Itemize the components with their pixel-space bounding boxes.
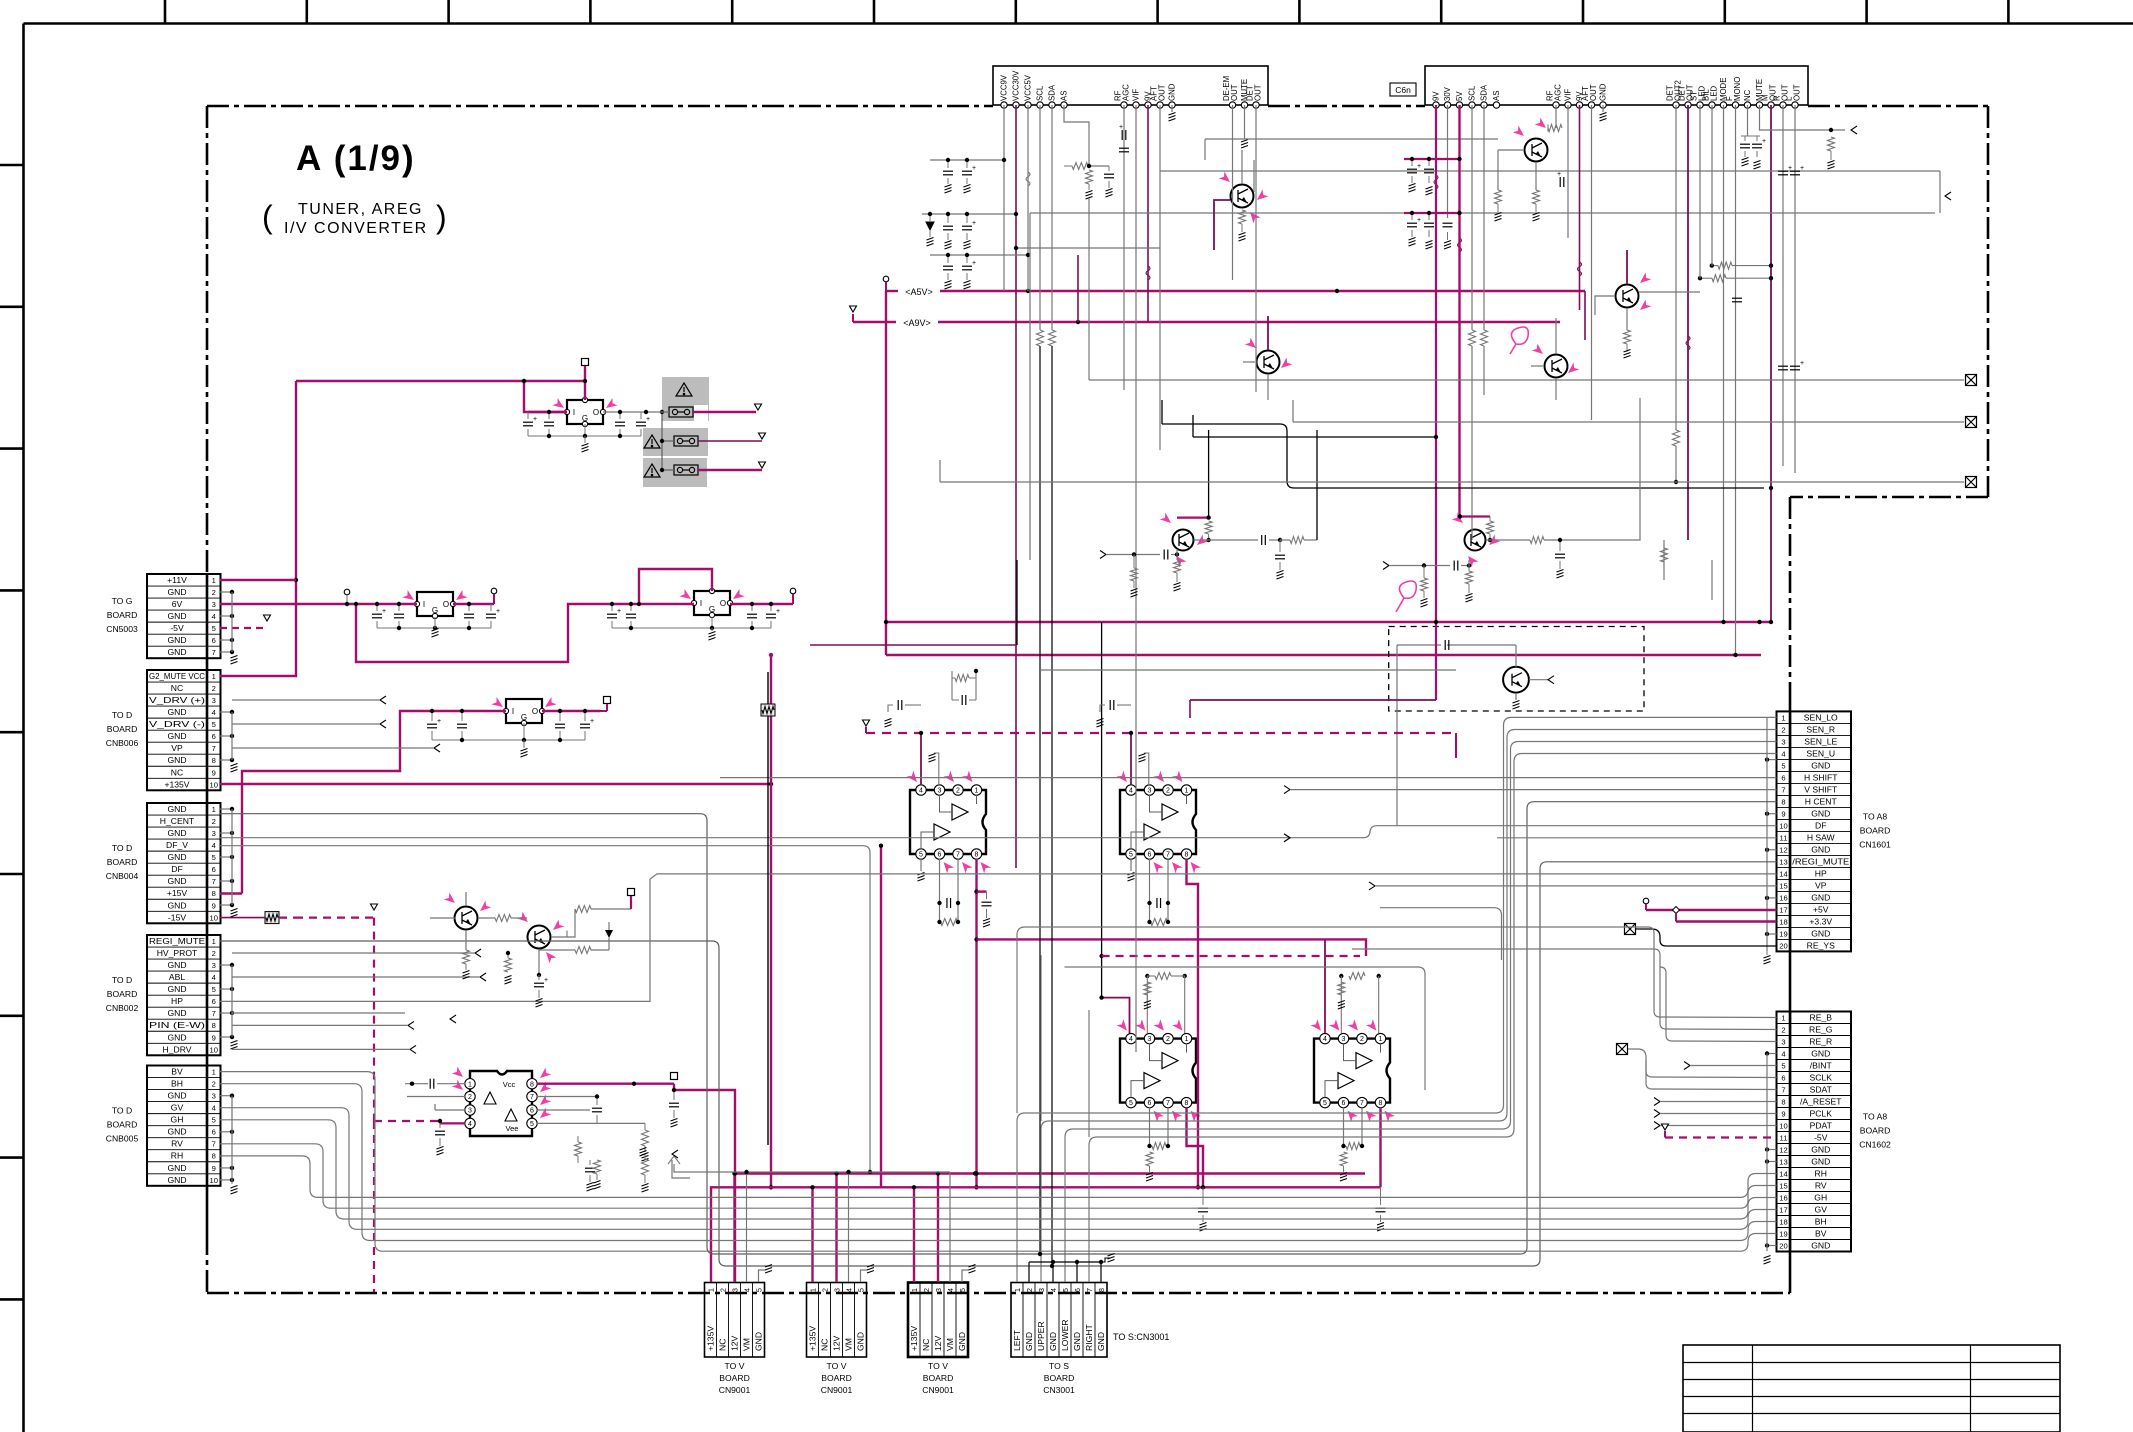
svg-text:BV: BV xyxy=(1815,1229,1827,1239)
svg-text:19: 19 xyxy=(1779,929,1787,938)
bottom conn CNS gnd bus xyxy=(1028,1262,1030,1282)
svg-text:H SHIFT: H SHIFT xyxy=(1804,772,1838,782)
svg-text:O: O xyxy=(593,408,599,417)
svg-text:1: 1 xyxy=(975,788,979,795)
svg-text:6: 6 xyxy=(1148,852,1152,859)
svg-text:VIF: VIF xyxy=(1564,89,1573,101)
DF_V wire xyxy=(220,846,870,1172)
svg-text:12V: 12V xyxy=(730,1335,740,1351)
svg-text:-5V: -5V xyxy=(1814,1133,1828,1143)
SCL/SDA join bottom rails xyxy=(1038,1252,1042,1256)
magenta +135V rail to CN9001 pin1 xyxy=(711,1187,1381,1282)
svg-text:3: 3 xyxy=(212,696,216,705)
svg-text:SDA: SDA xyxy=(1480,84,1489,101)
svg-text:GND: GND xyxy=(1024,1332,1034,1351)
svg-text:+: + xyxy=(544,977,548,984)
svg-text:AGC: AGC xyxy=(1554,84,1563,101)
svg-text:GND: GND xyxy=(1811,1157,1830,1167)
IC301 pin3 input xyxy=(435,1109,465,1111)
pin3 gnd stubs xyxy=(934,753,939,785)
svg-text:4: 4 xyxy=(212,973,216,982)
svg-text:LEFT: LEFT xyxy=(1012,1329,1022,1351)
svg-text:TO A8: TO A8 xyxy=(1863,1112,1887,1122)
wire jumper J1 out xyxy=(693,411,756,413)
svg-text:3: 3 xyxy=(730,1288,739,1292)
svg-text:6: 6 xyxy=(212,997,216,1006)
gnd hooks above CN9001 xyxy=(759,1270,766,1282)
svg-text:4: 4 xyxy=(919,788,923,795)
magenta rail y939 xyxy=(977,939,1367,956)
svg-text:CN1602: CN1602 xyxy=(1859,1140,1891,1150)
regulator IC003 (lower) xyxy=(506,699,542,723)
svg-text:GND: GND xyxy=(1811,844,1830,854)
svg-text:2: 2 xyxy=(212,588,216,597)
svg-text:GND: GND xyxy=(1811,808,1830,818)
svg-text:OUT: OUT xyxy=(1158,84,1167,101)
svg-text:2: 2 xyxy=(212,1080,216,1089)
svg-text:6V: 6V xyxy=(172,599,183,609)
svg-text:+: + xyxy=(1417,163,1421,170)
svg-text:O: O xyxy=(720,599,726,608)
magenta 9V net right xyxy=(1435,499,1437,501)
svg-text:+11V: +11V xyxy=(167,575,187,585)
svg-text:RH: RH xyxy=(171,1151,183,1161)
svg-text:REGI_MUTE: REGI_MUTE xyxy=(149,936,205,946)
svg-text:GND: GND xyxy=(167,984,186,994)
svg-text:17: 17 xyxy=(1779,905,1787,914)
svg-text:GND: GND xyxy=(167,587,186,597)
svg-text:BOARD: BOARD xyxy=(1860,825,1891,835)
svg-text:2: 2 xyxy=(718,1288,727,1292)
svg-text:5: 5 xyxy=(212,1116,216,1125)
svg-text:15: 15 xyxy=(1779,1182,1787,1191)
top mid transistor circuits xyxy=(1241,150,1243,184)
svg-text:VCC30V: VCC30V xyxy=(1012,70,1021,101)
svg-text:GND: GND xyxy=(754,1332,764,1351)
svg-text:MONO: MONO xyxy=(1733,77,1742,101)
svg-text:+: + xyxy=(1417,217,1421,224)
svg-text:14: 14 xyxy=(1779,869,1787,878)
svg-text:CN9001: CN9001 xyxy=(719,1385,751,1395)
svg-text:-15V: -15V xyxy=(168,912,186,922)
svg-text:RV: RV xyxy=(1815,1181,1827,1191)
op-amp U303 wires xyxy=(1101,622,1103,998)
svg-text:GH: GH xyxy=(1814,1193,1827,1203)
svg-text:SDA: SDA xyxy=(1048,84,1057,101)
svg-text:17: 17 xyxy=(1779,1206,1787,1215)
svg-text:+: + xyxy=(776,608,780,615)
svg-text:9: 9 xyxy=(1781,809,1785,818)
svg-text:/A_RESET: /A_RESET xyxy=(1800,1097,1842,1107)
svg-text:GND: GND xyxy=(167,611,186,621)
svg-text:HP: HP xyxy=(171,996,183,1006)
svg-text:AGC: AGC xyxy=(1122,84,1131,101)
svg-text:4: 4 xyxy=(212,612,216,621)
long magenta bus y622 xyxy=(886,621,1770,623)
svg-text:4: 4 xyxy=(742,1288,751,1292)
svg-text:30V: 30V xyxy=(1443,86,1452,101)
long magenta bus y655 xyxy=(886,654,1761,656)
IC301 pin2 input xyxy=(407,1096,465,1098)
svg-text:RE_B: RE_B xyxy=(1810,1013,1833,1023)
svg-text:C6n: C6n xyxy=(1395,85,1411,95)
svg-text:7: 7 xyxy=(212,648,216,657)
svg-text:H_CENT: H_CENT xyxy=(160,816,195,826)
svg-text:GND: GND xyxy=(1811,1049,1830,1059)
svg-text:GND: GND xyxy=(167,1008,186,1018)
svg-text:6: 6 xyxy=(212,1128,216,1137)
svg-text:SEN_U: SEN_U xyxy=(1806,748,1835,758)
jumper J3 xyxy=(674,465,698,475)
svg-text:RH: RH xyxy=(1815,1169,1827,1179)
svg-text:4: 4 xyxy=(212,708,216,717)
svg-text:6: 6 xyxy=(212,732,216,741)
svg-text:AS: AS xyxy=(1060,91,1069,101)
connector CN1602 xyxy=(1777,1012,1852,1252)
misc long verticals center xyxy=(767,672,769,706)
svg-text:BOARD: BOARD xyxy=(1860,1126,1891,1136)
CN5003 gnd stubs xyxy=(220,591,232,593)
svg-text:VIF: VIF xyxy=(1132,89,1141,101)
RE_B/G/R wires xyxy=(1648,927,1777,1018)
three xbox rows xyxy=(1089,379,1964,381)
svg-text:3: 3 xyxy=(938,788,942,795)
svg-text:GND: GND xyxy=(167,1127,186,1137)
svg-text:UPPER: UPPER xyxy=(1036,1321,1046,1351)
svg-text:+: + xyxy=(1800,360,1804,367)
H SHIFT wire xyxy=(720,777,1777,779)
svg-text:PCLK: PCLK xyxy=(1810,1109,1833,1119)
long gray y171 xyxy=(934,170,936,172)
svg-text:7: 7 xyxy=(530,1094,534,1101)
svg-text:8: 8 xyxy=(212,1152,216,1161)
svg-text:+3.3V: +3.3V xyxy=(1809,916,1832,926)
pink wiggle xyxy=(1396,581,1416,612)
resistor net right of AS xyxy=(1072,163,1088,170)
svg-text:3: 3 xyxy=(1037,1288,1046,1292)
svg-text:BOARD: BOARD xyxy=(107,610,138,620)
A5V vertical feed xyxy=(885,291,887,655)
connector CNB004 xyxy=(147,803,221,923)
svg-text:BH: BH xyxy=(171,1079,183,1089)
svg-text:12V: 12V xyxy=(933,1335,943,1351)
IC201 caps xyxy=(528,411,567,413)
connector CNB002 xyxy=(147,935,221,1055)
svg-text:1: 1 xyxy=(1185,1036,1189,1043)
wire jumper J2 out xyxy=(698,440,762,442)
svg-text:13: 13 xyxy=(1779,1158,1787,1167)
IC001 out xyxy=(453,603,494,605)
connector CN1601 xyxy=(1777,711,1852,951)
svg-text:GND: GND xyxy=(167,900,186,910)
transistor Q_mid2 circuit xyxy=(1383,562,1389,570)
transistor 1268/1556 362 circuits xyxy=(1267,316,1269,350)
svg-text:10: 10 xyxy=(210,780,218,789)
op-amp U301 xyxy=(908,790,988,854)
svg-text:7: 7 xyxy=(212,1140,216,1149)
svg-text:8: 8 xyxy=(530,1081,534,1088)
wire G2_MUTE vertical xyxy=(220,381,296,676)
svg-text:GND: GND xyxy=(167,1032,186,1042)
svg-text:TO A8: TO A8 xyxy=(1863,811,1887,821)
res cluster above U304 xyxy=(1349,973,1365,980)
svg-text:1: 1 xyxy=(910,1288,919,1292)
regulator IC201 (top) xyxy=(567,400,603,424)
svg-text:+135V: +135V xyxy=(909,1326,919,1351)
svg-text:6: 6 xyxy=(1342,1100,1346,1107)
svg-text:12: 12 xyxy=(1779,845,1787,854)
+5V stub xyxy=(1646,909,1777,911)
svg-text:8: 8 xyxy=(1379,1100,1383,1107)
IC U201 top box xyxy=(1425,66,1808,105)
svg-text:GND: GND xyxy=(167,852,186,862)
svg-text:): ) xyxy=(436,199,447,235)
caps cluster c xyxy=(943,266,953,270)
svg-text:6: 6 xyxy=(938,852,942,859)
svg-text:6: 6 xyxy=(530,1108,534,1115)
svg-text:4: 4 xyxy=(1049,1288,1058,1292)
IC301 pin8 magenta xyxy=(537,1082,674,1084)
svg-text:CNB006: CNB006 xyxy=(106,738,139,748)
svg-text:TO V: TO V xyxy=(827,1361,847,1371)
wire jumper J3 out xyxy=(698,469,762,471)
svg-text:2: 2 xyxy=(820,1288,829,1292)
svg-text:<A9V>: <A9V> xyxy=(903,318,931,328)
svg-text:18: 18 xyxy=(1779,917,1787,926)
svg-text:LED: LED xyxy=(1710,85,1719,101)
svg-text:GND: GND xyxy=(167,804,186,814)
svg-text:NC: NC xyxy=(718,1339,728,1351)
svg-text:+: + xyxy=(1119,124,1123,131)
svg-text:7: 7 xyxy=(1085,1288,1094,1292)
svg-text:BOARD: BOARD xyxy=(821,1373,852,1383)
magenta 12V rail to CN9001 pin3 xyxy=(735,1172,1366,1174)
svg-text:5: 5 xyxy=(212,720,216,729)
svg-text:2: 2 xyxy=(1781,725,1785,734)
svg-text:2: 2 xyxy=(212,949,216,958)
svg-text:18: 18 xyxy=(1779,1218,1787,1227)
svg-text:CNB005: CNB005 xyxy=(106,1134,139,1144)
CN1601 left stubs xyxy=(1767,759,1777,761)
VM gray rail xyxy=(668,1156,680,1164)
IC003 caps xyxy=(427,724,437,728)
svg-text:1: 1 xyxy=(212,1068,216,1077)
svg-text:-5V: -5V xyxy=(170,623,184,633)
svg-text:9: 9 xyxy=(212,768,216,777)
svg-text:DF: DF xyxy=(171,864,182,874)
bundle B CNB005 to CN1602 xyxy=(220,1072,1777,1252)
svg-text:+: + xyxy=(1800,165,1804,172)
svg-text:AS: AS xyxy=(1492,91,1501,101)
H SAW arrow wire xyxy=(1284,834,1290,842)
svg-text:5: 5 xyxy=(1061,1288,1070,1292)
svg-text:3: 3 xyxy=(832,1288,841,1292)
HP wire xyxy=(220,874,1777,1002)
jumper J1 xyxy=(669,407,693,417)
svg-text:I: I xyxy=(700,599,702,608)
svg-text:GND: GND xyxy=(167,1163,186,1173)
svg-text:9: 9 xyxy=(212,901,216,910)
svg-text:TO V: TO V xyxy=(928,1361,948,1371)
svg-text:9: 9 xyxy=(1781,1110,1785,1119)
svg-text:6: 6 xyxy=(212,636,216,645)
svg-text:5V: 5V xyxy=(1455,91,1464,101)
res pair to riser xyxy=(1712,265,1718,267)
gray y967 staircase xyxy=(1065,967,1426,1090)
svg-text:GND: GND xyxy=(1811,760,1830,770)
svg-text:7: 7 xyxy=(1781,785,1785,794)
IC002 caps xyxy=(607,614,617,618)
svg-text:2: 2 xyxy=(212,684,216,693)
svg-text:+: + xyxy=(1762,138,1766,145)
CNB004 gnd stubs xyxy=(220,808,232,810)
svg-text:2: 2 xyxy=(212,817,216,826)
dashed -15V net xyxy=(265,912,279,924)
svg-text:7: 7 xyxy=(212,744,216,753)
svg-text:RE_YS: RE_YS xyxy=(1807,940,1835,950)
svg-text:7: 7 xyxy=(212,1009,216,1018)
long gray y927 xyxy=(1017,927,1648,1113)
svg-text:5: 5 xyxy=(1129,852,1133,859)
op-amp U304 wires xyxy=(1324,940,1326,1033)
svg-text:1: 1 xyxy=(212,937,216,946)
svg-text:8: 8 xyxy=(212,889,216,898)
svg-text:RIGHT: RIGHT xyxy=(1084,1324,1094,1351)
svg-text:TO D: TO D xyxy=(112,843,132,853)
GND bus CN1602 xyxy=(1767,1053,1777,1055)
svg-text:5: 5 xyxy=(1129,1100,1133,1107)
vertical x771 xyxy=(770,655,772,1187)
svg-text:3: 3 xyxy=(1148,1036,1152,1043)
svg-text:NC: NC xyxy=(171,767,183,777)
svg-text:6: 6 xyxy=(212,865,216,874)
transistor 1627,296 circuit xyxy=(1626,250,1628,284)
svg-text:BOARD: BOARD xyxy=(923,1373,954,1383)
svg-text:+135V: +135V xyxy=(164,779,189,789)
svg-text:9V: 9V xyxy=(1432,91,1441,101)
svg-text:TO S:CN3001: TO S:CN3001 xyxy=(1113,1332,1169,1342)
svg-text:GND: GND xyxy=(167,707,186,717)
svg-text:+135V: +135V xyxy=(808,1326,818,1351)
svg-text:TO V: TO V xyxy=(725,1361,745,1371)
svg-text:GV: GV xyxy=(1815,1205,1828,1215)
svg-text:7: 7 xyxy=(1166,1100,1170,1107)
svg-text:<A5V>: <A5V> xyxy=(905,287,933,297)
w vertical extensions xyxy=(1040,955,1042,1121)
second res x644 xyxy=(642,1159,649,1175)
CNB002 stubs xyxy=(220,964,232,966)
svg-text:GND: GND xyxy=(167,960,186,970)
wire +B to IC201 xyxy=(582,359,589,366)
wire into IC002 xyxy=(356,604,694,662)
svg-text:OUT: OUT xyxy=(1793,84,1802,101)
regulator IC002 (mid) xyxy=(694,591,730,615)
op-amp U304 xyxy=(1312,1039,1392,1103)
svg-text:1: 1 xyxy=(706,1288,715,1292)
svg-text:PIN (E-W): PIN (E-W) xyxy=(149,1020,205,1030)
svg-text:GND: GND xyxy=(1072,1332,1082,1351)
svg-text:TO D: TO D xyxy=(112,1106,132,1116)
IC301 pin1 input xyxy=(430,1079,434,1089)
/BINT arrow xyxy=(1684,1062,1690,1070)
svg-text:+: + xyxy=(496,608,500,615)
svg-text:SEN_LE: SEN_LE xyxy=(1804,736,1837,746)
svg-text:8: 8 xyxy=(212,756,216,765)
+3.3V stub xyxy=(1676,920,1777,922)
connector CN5003 xyxy=(147,574,221,658)
board outline dash-dot xyxy=(207,105,993,108)
gray shaded option boxes xyxy=(662,377,709,421)
svg-text:8: 8 xyxy=(1185,852,1189,859)
caps cluster b (zener) xyxy=(943,226,953,230)
svg-text:H_DRV: H_DRV xyxy=(163,1044,192,1054)
svg-text:+15V: +15V xyxy=(167,888,188,898)
hsaw src xyxy=(672,1160,690,1178)
svg-text:+5V: +5V xyxy=(1813,904,1829,914)
IC002 out xyxy=(730,603,793,605)
long gray y213 xyxy=(1030,212,1935,214)
svg-text:+135V: +135V xyxy=(706,1326,716,1351)
svg-text:I/V CONVERTER: I/V CONVERTER xyxy=(284,220,428,237)
svg-text:NC: NC xyxy=(921,1339,931,1351)
svg-text:GND: GND xyxy=(856,1332,866,1351)
svg-text:H SAW: H SAW xyxy=(1807,832,1836,842)
svg-text:7: 7 xyxy=(212,877,216,886)
svg-text:GH: GH xyxy=(171,1115,184,1125)
top area components under U101 xyxy=(1003,105,1005,291)
svg-text:NC: NC xyxy=(171,683,183,693)
svg-text:19: 19 xyxy=(1779,1230,1787,1239)
CNB005 other stubs xyxy=(220,1095,232,1097)
pink curl 2 xyxy=(1510,327,1528,354)
svg-text:10: 10 xyxy=(1779,1122,1787,1131)
connector CN9001 a xyxy=(705,1283,765,1358)
svg-text:BOARD: BOARD xyxy=(107,857,138,867)
rc between pins6-7 lower opamps xyxy=(1149,1108,1151,1146)
svg-text:6: 6 xyxy=(1781,773,1785,782)
svg-text:SCL: SCL xyxy=(1036,85,1045,101)
svg-text:OUT: OUT xyxy=(1589,84,1598,101)
svg-text:SDAT: SDAT xyxy=(1810,1085,1833,1095)
svg-text:RE_R: RE_R xyxy=(1809,1037,1832,1047)
svg-text:CN1601: CN1601 xyxy=(1859,839,1891,849)
svg-text:2: 2 xyxy=(1781,1026,1785,1035)
magenta right riser M OUT xyxy=(1770,105,1772,622)
svg-text:3: 3 xyxy=(1781,737,1785,746)
svg-text:OUT: OUT xyxy=(1230,84,1239,101)
ground IC201 xyxy=(584,436,586,443)
svg-text:Vcc: Vcc xyxy=(503,1080,516,1089)
svg-text:+: + xyxy=(972,220,976,227)
svg-text:12: 12 xyxy=(1779,1146,1787,1155)
svg-text:BOARD: BOARD xyxy=(107,724,138,734)
svg-text:3: 3 xyxy=(212,600,216,609)
svg-text:PDAT: PDAT xyxy=(1810,1121,1833,1131)
svg-text:BH: BH xyxy=(1815,1217,1827,1227)
svg-text:5: 5 xyxy=(530,1121,534,1128)
svg-text:V SHIFT: V SHIFT xyxy=(1804,784,1838,794)
transistors top xyxy=(1231,185,1254,208)
svg-text:+: + xyxy=(972,260,976,267)
svg-text:6: 6 xyxy=(1073,1288,1082,1292)
svg-text:5: 5 xyxy=(919,852,923,859)
svg-text:4: 4 xyxy=(1129,788,1133,795)
IC301 pin7/6/5 xyxy=(537,1096,597,1098)
svg-text:TO G: TO G xyxy=(112,596,133,606)
svg-text:/REGI_MUTE: /REGI_MUTE xyxy=(1792,856,1849,866)
vertical x881 feed xyxy=(880,846,882,1188)
svg-text:TO D: TO D xyxy=(112,975,132,985)
